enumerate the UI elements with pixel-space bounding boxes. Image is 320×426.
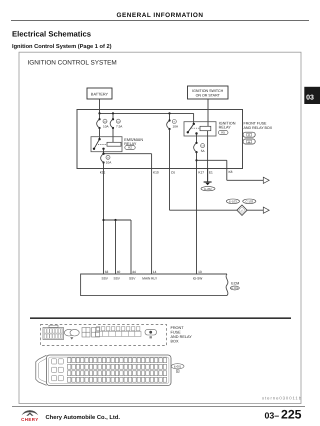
svg-text:R2: R2 xyxy=(128,146,132,150)
relay sockets ovals xyxy=(64,329,79,339)
svg-text:C-103: C-103 xyxy=(245,200,253,204)
svg-text:IGNITION SWITCH: IGNITION SWITCH xyxy=(192,89,224,93)
ground oval E-202 xyxy=(201,187,215,191)
wire K17 to ECM pin 13 xyxy=(196,169,198,275)
svg-text:FRONT: FRONT xyxy=(171,326,185,330)
connector oval C-103 xyxy=(243,199,256,204)
watermark code xyxy=(262,395,302,400)
front fuse and relay box outline xyxy=(77,110,243,169)
svg-text:K17: K17 xyxy=(198,171,204,175)
page number xyxy=(265,408,302,422)
fuse F5 5A xyxy=(194,134,206,154)
connector block 1 xyxy=(43,325,64,339)
svg-text:E-202: E-202 xyxy=(204,187,212,191)
wire K10 to ECM pin 14 xyxy=(151,169,153,275)
svg-text:63: 63 xyxy=(105,270,109,274)
svg-text:ON OR START: ON OR START xyxy=(196,94,221,98)
svg-text:13: 13 xyxy=(198,270,202,274)
ECM connector oval E-001 xyxy=(171,364,184,373)
svg-text:SSV: SSV xyxy=(102,276,109,280)
fuse strip xyxy=(96,327,141,337)
EMS/MAIN relay R2 xyxy=(91,137,143,152)
separator rule xyxy=(30,317,291,319)
svg-text:Ignition Control System (Page: Ignition Control System (Page 1 of 2) xyxy=(12,43,112,50)
wire branch to ECM pins 40 44 xyxy=(104,219,132,274)
svg-text:R5: R5 xyxy=(221,131,225,135)
svg-text:10A: 10A xyxy=(106,161,112,165)
ignition relay R5 xyxy=(184,121,236,136)
svg-text:5A: 5A xyxy=(201,149,206,153)
front fuse and relay box side label xyxy=(244,122,273,130)
footer company xyxy=(46,414,121,421)
wire F4 to pin K11 xyxy=(103,163,105,169)
pin label K11 xyxy=(100,171,106,175)
svg-text:Electrical Schematics: Electrical Schematics xyxy=(12,30,91,39)
svg-text:IGNITION CONTROL SYSTEM: IGNITION CONTROL SYSTEM xyxy=(28,59,117,66)
svg-text:IG-SW: IG-SW xyxy=(193,276,203,280)
svg-text:K10: K10 xyxy=(153,171,159,175)
page title xyxy=(11,12,309,21)
svg-text:A: A xyxy=(248,140,250,144)
chery logo xyxy=(21,410,38,422)
fuse F4 10A xyxy=(101,153,113,165)
fuse F1 10A xyxy=(97,113,110,129)
small relay socket xyxy=(145,329,157,338)
svg-text:K8: K8 xyxy=(229,170,233,174)
svg-text:ECM: ECM xyxy=(231,282,239,286)
pin label K8 xyxy=(229,170,233,174)
svg-text:AND RELAY BOX: AND RELAY BOX xyxy=(244,126,273,130)
svg-text:C6: C6 xyxy=(171,171,175,175)
svg-text:SSV: SSV xyxy=(114,276,121,280)
wire battery to box xyxy=(99,99,101,113)
wire F5 to pin K17 junction xyxy=(195,152,197,168)
svg-text:10A: 10A xyxy=(173,124,179,128)
svg-text:BOX: BOX xyxy=(171,340,179,344)
svg-text:Chery Automobile Co., Ltd.: Chery Automobile Co., Ltd. xyxy=(46,414,121,421)
ECM connector pin grid xyxy=(68,358,167,382)
ECM pin 14 xyxy=(142,270,158,280)
pin label C6 xyxy=(171,171,175,175)
svg-text:225: 225 xyxy=(281,408,302,422)
svg-text:03–: 03– xyxy=(265,410,280,420)
svg-text:CHERY: CHERY xyxy=(21,417,38,422)
ECM label xyxy=(230,282,239,291)
svg-text:40: 40 xyxy=(117,270,121,274)
chapter tab 03 xyxy=(304,87,320,104)
ECM connector large pins xyxy=(52,359,64,381)
svg-text:AND RELAY: AND RELAY xyxy=(171,335,193,339)
svg-text:GENERAL INFORMATION: GENERAL INFORMATION xyxy=(116,12,203,19)
pin label E1 xyxy=(209,171,213,175)
wire K11 to ECM pin 63 xyxy=(102,169,104,275)
battery bus wire xyxy=(98,112,193,123)
footer rule xyxy=(12,406,305,408)
connector pill C xyxy=(243,132,255,137)
connector oval E-103 xyxy=(226,199,239,204)
svg-text:14: 14 xyxy=(153,270,157,274)
svg-text:BATTERY: BATTERY xyxy=(91,93,109,97)
svg-text:E-001: E-001 xyxy=(231,287,238,290)
inline connector diamond xyxy=(237,205,247,215)
wire relay R2 output junction xyxy=(102,149,104,155)
svg-text:E-103: E-103 xyxy=(229,200,237,204)
svg-text:7.5A: 7.5A xyxy=(116,125,123,129)
svg-text:E-001: E-001 xyxy=(174,365,182,369)
wire branch to K10 xyxy=(104,154,152,169)
wire branch to pin K8 xyxy=(197,160,227,168)
relay block row xyxy=(82,328,100,338)
ECM pin 13 xyxy=(193,270,203,280)
svg-text:44: 44 xyxy=(132,270,136,274)
svg-text:RELAY: RELAY xyxy=(219,125,232,129)
svg-text:MAIN RLY: MAIN RLY xyxy=(142,276,158,280)
battery B+ box xyxy=(87,88,112,99)
svg-text:10A: 10A xyxy=(103,125,109,129)
fuse F3 10A xyxy=(167,113,179,130)
fuse F2 7.5A xyxy=(110,113,123,129)
fuse box layout caption xyxy=(171,326,193,344)
fuse box layout dashed outline xyxy=(41,325,167,346)
ECM connector drawing xyxy=(36,355,171,386)
connector pill A xyxy=(243,139,255,144)
ground G xyxy=(204,182,212,185)
pin label K10 xyxy=(153,171,159,175)
svg-text:03: 03 xyxy=(306,94,314,101)
ECM pin 44 xyxy=(129,270,136,280)
svg-text:xterne030011b: xterne030011b xyxy=(262,395,302,400)
ignition switch box xyxy=(188,86,229,99)
svg-text:C: C xyxy=(248,133,250,137)
wire F2 to relay R2 coil xyxy=(112,128,114,142)
wire F1 to relay R2 contact xyxy=(99,128,101,139)
svg-text:FUSE: FUSE xyxy=(171,330,182,334)
wire E1 to ground xyxy=(207,169,209,183)
wire ignition switch to relay coil xyxy=(207,99,209,126)
ECM box xyxy=(81,274,228,296)
schematic frame xyxy=(19,52,301,403)
svg-text:E1: E1 xyxy=(209,171,213,175)
wire K8 to right arrow xyxy=(227,169,269,184)
ECM pin 40 xyxy=(114,270,121,280)
svg-text:K11: K11 xyxy=(100,171,106,175)
svg-text:SSV: SSV xyxy=(129,276,136,280)
pin label K17 xyxy=(198,171,204,175)
wire C6 to right arrow xyxy=(170,129,270,213)
ECM pin 63 xyxy=(102,270,109,280)
section heading xyxy=(12,30,112,51)
wire ignition relay coil to pin E1 xyxy=(207,131,209,169)
